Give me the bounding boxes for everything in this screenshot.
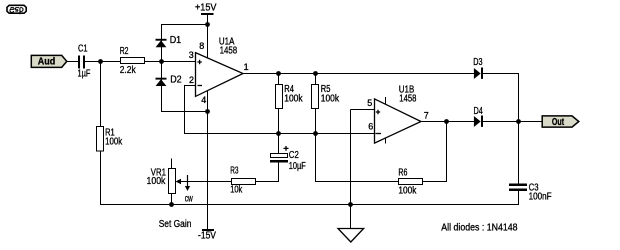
wire U1A pin4 to -15V <box>207 90 209 230</box>
svg-text:100k: 100k <box>321 93 339 104</box>
svg-text:100nF: 100nF <box>529 192 552 203</box>
wire C1 to U1A pin3 <box>84 61 196 63</box>
wire U1A pin2 stub <box>184 85 196 87</box>
svg-text:C1: C1 <box>78 43 88 54</box>
wire out node vertical to C3 <box>518 74 520 184</box>
svg-text:10k: 10k <box>230 184 242 195</box>
svg-text:Set Gain: Set Gain <box>159 219 192 230</box>
potentiometer VR1 body <box>169 169 176 194</box>
wire R5 branch <box>315 74 317 134</box>
resistor R3 body <box>232 179 256 185</box>
wire U1B pin5 to ground <box>351 110 375 229</box>
svg-text:7: 7 <box>424 110 429 120</box>
svg-text:R3: R3 <box>230 165 239 176</box>
potentiometer VR1 wiper arrow <box>176 179 182 184</box>
resistor R1 body <box>97 127 104 152</box>
wire VR1 wiper to R3 to C2 <box>179 181 279 183</box>
node R5-R6 feedback junction <box>313 131 318 136</box>
+15V rail bar <box>201 13 214 15</box>
svg-text:1: 1 <box>244 62 249 72</box>
node +15V supply junction <box>205 22 210 27</box>
svg-text:100k: 100k <box>147 176 166 187</box>
resistor R2 body <box>121 58 145 64</box>
wire D4 to Out tag <box>483 121 543 123</box>
cw arrow <box>185 175 190 191</box>
svg-text:-15V: -15V <box>198 231 216 242</box>
wire R6 right to U1B output <box>446 122 448 183</box>
svg-text:cw: cw <box>185 194 194 205</box>
wire U1B power stub top <box>385 97 387 105</box>
svg-text:D1: D1 <box>170 35 182 46</box>
svg-text:Aud: Aud <box>38 57 56 68</box>
capacitor C1 <box>79 56 84 69</box>
svg-text:2.2k: 2.2k <box>120 65 136 76</box>
svg-text:100k: 100k <box>105 136 122 147</box>
svg-text:4: 4 <box>201 95 206 105</box>
node R2-D1-D2-pin3 junction <box>159 59 164 64</box>
wire C3 to ground rail <box>518 191 520 206</box>
wire Aud to C1 <box>67 61 78 63</box>
resistor R5 body <box>312 85 319 109</box>
svg-text:+15V: +15V <box>195 3 217 14</box>
svg-text:1458: 1458 <box>220 45 238 56</box>
-15V rail bar <box>202 229 214 231</box>
svg-text:2: 2 <box>189 75 194 85</box>
svg-text:D3: D3 <box>473 57 483 68</box>
wire feedback vertical <box>184 86 186 134</box>
diode D2 <box>156 78 167 86</box>
svg-text:8: 8 <box>199 41 204 51</box>
svg-text:All diodes : 1N4148: All diodes : 1N4148 <box>441 223 518 234</box>
svg-text:6: 6 <box>368 122 373 132</box>
esp logo <box>7 5 26 14</box>
wire diode chain vertical <box>161 25 163 112</box>
svg-text:100k: 100k <box>284 93 302 104</box>
diode D4 <box>474 116 483 128</box>
node VR1-ground rail junction <box>169 202 174 207</box>
wire ground rail <box>100 204 519 206</box>
capacitor C3 <box>509 183 527 191</box>
node Out D3-D4-C3 junction <box>516 119 521 124</box>
resistor R4 body <box>276 85 283 109</box>
svg-text:3: 3 <box>189 50 194 60</box>
op-amp U1B plus sign <box>376 110 380 114</box>
wire input node down to R1 <box>100 62 102 205</box>
wire feedback bus to U1B pin6 <box>184 133 375 135</box>
node C1-R2-R1 junction <box>98 59 103 64</box>
node U1A output-R4 junction <box>276 71 281 76</box>
svg-text:100k: 100k <box>398 185 416 196</box>
node U1A output-R5 junction <box>313 71 318 76</box>
wire R5 bottom to R6 <box>316 134 447 183</box>
svg-text:1µF: 1µF <box>78 69 91 80</box>
wire U1B power stub bottom <box>385 138 387 144</box>
wire C2 bottom lead <box>278 163 280 183</box>
diode D1 <box>156 39 167 47</box>
node R4-C2 feedback junction <box>276 131 281 136</box>
ground <box>338 229 364 243</box>
wire U1A output to D3 <box>243 73 474 75</box>
svg-text:1458: 1458 <box>399 93 417 104</box>
node Out output tag <box>542 116 579 128</box>
svg-text:R2: R2 <box>120 46 129 57</box>
node U1B output-R6-D4 junction <box>444 119 449 124</box>
node ground rail junction <box>348 202 353 207</box>
wire R4 branch <box>278 74 280 154</box>
svg-text:C2: C2 <box>289 150 299 161</box>
op-amp U1B minus sign <box>376 133 382 135</box>
wire D2 anode to -15V line <box>161 111 208 113</box>
wire +15V to U1A pin8 <box>207 14 209 59</box>
svg-text:D4: D4 <box>474 106 484 117</box>
svg-text:D2: D2 <box>170 75 182 86</box>
wire U1B output to D4 <box>421 121 474 123</box>
node D2 anode to -15V line junction <box>205 109 210 114</box>
op-amp U1B <box>375 99 422 143</box>
wire D3 to out node <box>483 73 519 75</box>
op-amp U1A plus sign <box>197 60 201 64</box>
op-amp U1A <box>196 53 244 97</box>
svg-text:Out: Out <box>552 117 565 128</box>
node Aud input tag <box>31 55 67 67</box>
op-amp U1A minus sign <box>198 85 203 87</box>
diode D3 <box>474 68 483 80</box>
svg-text:10µF: 10µF <box>289 161 306 172</box>
resistor R6 body <box>399 179 423 185</box>
wire +15V feed horizontal <box>161 24 208 26</box>
capacitor C2 <box>270 146 289 162</box>
svg-text:5: 5 <box>367 98 372 108</box>
wire VR1 leads <box>171 159 173 205</box>
svg-text:R6: R6 <box>398 167 407 178</box>
